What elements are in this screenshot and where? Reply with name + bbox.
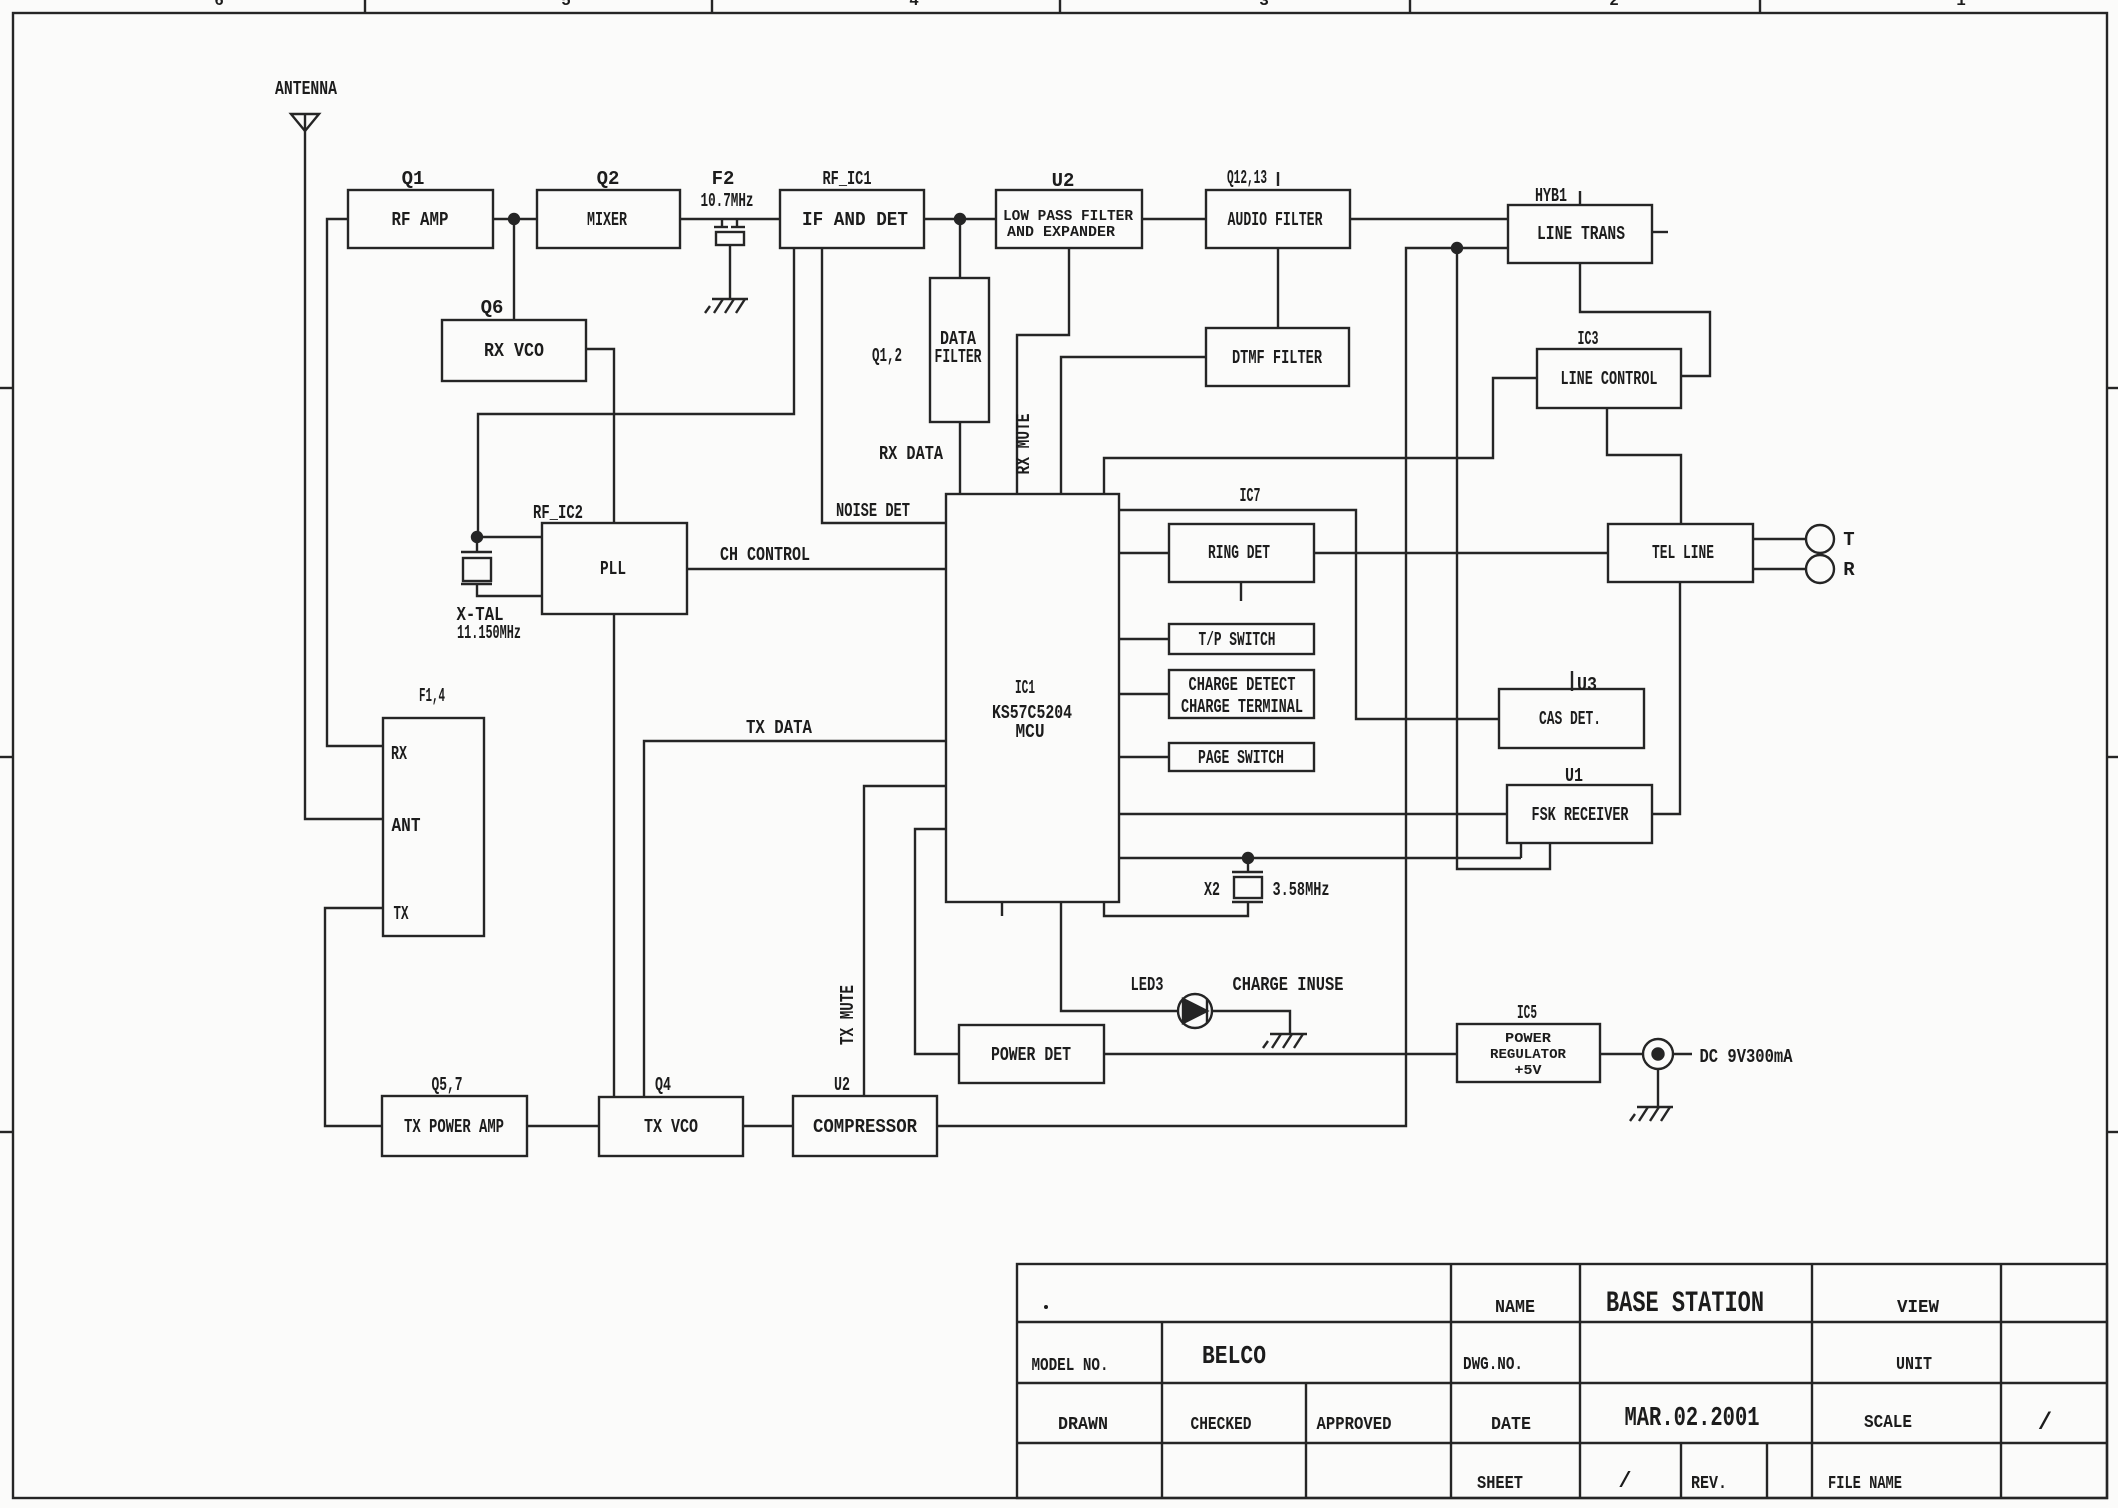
ruler tick 1: [364, 0, 366, 13]
component RING DET IC7: [1169, 524, 1314, 582]
svg-text:DTMF FILTER: DTMF FILTER: [1232, 347, 1322, 369]
svg-text:ANT: ANT: [392, 815, 421, 837]
ruler tick 2: [711, 0, 713, 13]
svg-text:APPROVED: APPROVED: [1317, 1415, 1392, 1435]
svg-text:6: 6: [214, 0, 224, 10]
component CHARGE DETECT / CHARGE TERMINAL: [1169, 670, 1314, 718]
wire LINE CONTROL left to MCU top: [1104, 378, 1537, 494]
svg-text:IF AND DET: IF AND DET: [802, 209, 908, 231]
node junction X2: [1243, 853, 1253, 863]
LED3 diode: [1178, 994, 1212, 1028]
component TX POWER AMP Q5,7: [382, 1096, 527, 1156]
svg-text:RX DATA: RX DATA: [879, 443, 943, 465]
wire DTMF FILTER left to MCU top: [1061, 357, 1206, 494]
wire F1,4 TX port to TX POWER AMP: [325, 908, 383, 1126]
component TEL LINE: [1608, 524, 1753, 582]
svg-text:VIEW: VIEW: [1897, 1298, 1939, 1318]
svg-text:11.150MHz: 11.150MHz: [457, 622, 521, 644]
svg-text:10.7MHz: 10.7MHz: [701, 190, 754, 212]
wire node to DATA FILTER top: [959, 219, 961, 278]
zone tick left C: [0, 1131, 13, 1133]
svg-text:FILE NAME: FILE NAME: [1828, 1474, 1902, 1494]
schematic labels: [275, 78, 1855, 1138]
wire IF AND DET pin to PLL crystal node: [478, 248, 794, 537]
refdes tick U3: [1571, 671, 1573, 691]
svg-text:RING DET: RING DET: [1208, 542, 1270, 564]
component MCU IC1 KS57C5204: [946, 494, 1119, 902]
component RX VCO Q6: [442, 320, 586, 381]
svg-text:Q12,13: Q12,13: [1227, 167, 1267, 189]
svg-text:CHARGE INUSE: CHARGE INUSE: [1233, 974, 1344, 996]
component IF AND DET RF_IC1: [780, 190, 924, 248]
svg-text:FILTER: FILTER: [935, 346, 982, 368]
wire LOW PASS to AUDIO FILTER: [1142, 218, 1206, 220]
svg-text:AND EXPANDER: AND EXPANDER: [1007, 224, 1115, 241]
wire MCU bottom to LED3: [1061, 902, 1178, 1011]
zone tick left A: [0, 387, 13, 389]
component band filter F1,4: [383, 718, 484, 936]
ground for DC jack: [1630, 1107, 1673, 1121]
wire TX POWER AMP to TX VCO: [527, 1125, 599, 1127]
component LOW PASS FILTER AND EXPANDER U2: [996, 190, 1142, 248]
title col checked: [1305, 1383, 1307, 1498]
svg-text:IC5: IC5: [1517, 1002, 1537, 1024]
svg-text:PAGE SWITCH: PAGE SWITCH: [1198, 747, 1284, 769]
component ceramic filter F2: [714, 219, 745, 299]
svg-text:MAR.02.2001: MAR.02.2001: [1625, 1404, 1760, 1434]
svg-text:REGULATOR: REGULATOR: [1490, 1047, 1567, 1063]
DC jack connector: [1643, 1039, 1692, 1069]
svg-text:LINE CONTROL: LINE CONTROL: [1561, 368, 1658, 390]
svg-text:RX VCO: RX VCO: [484, 340, 544, 362]
wire MCU to T/P SWITCH: [1119, 638, 1169, 640]
crystal X-TAL 11.150MHz: [461, 537, 542, 596]
wire MCU to RING DET: [1119, 552, 1169, 554]
title col sheet slash: [1680, 1443, 1682, 1498]
title row line 3: [1017, 1442, 2107, 1444]
svg-text:+5V: +5V: [1515, 1063, 1543, 1079]
title block: [1017, 1264, 2107, 1498]
component PAGE SWITCH: [1169, 743, 1314, 771]
svg-text:REV.: REV.: [1691, 1474, 1727, 1494]
svg-text:CAS DET.: CAS DET.: [1539, 708, 1601, 730]
component LINE TRANS HYB1: [1508, 205, 1652, 263]
svg-text:T: T: [1843, 529, 1854, 551]
wire node down to FSK RECEIVER bottom: [1457, 248, 1550, 869]
svg-text:SHEET: SHEET: [1477, 1474, 1523, 1494]
wire TX VCO to COMPRESSOR: [743, 1125, 793, 1127]
svg-text:IC1: IC1: [1015, 677, 1035, 699]
refdes tick Q12,13: [1277, 172, 1279, 186]
svg-text:BELCO: BELCO: [1202, 1341, 1266, 1371]
component CAS DET. U3: [1499, 689, 1644, 748]
refdes tick HYB1: [1579, 191, 1581, 204]
terminal T: [1806, 525, 1834, 553]
zone tick right B: [2107, 756, 2118, 758]
svg-text:2: 2: [1609, 0, 1619, 10]
wire MIXER to IF AND DET: [680, 218, 780, 220]
svg-text:Q1: Q1: [402, 168, 425, 190]
svg-text:Q2: Q2: [597, 168, 620, 190]
svg-text:COMPRESSOR: COMPRESSOR: [813, 1116, 918, 1138]
svg-text:TX: TX: [394, 903, 409, 925]
svg-text:TX VCO: TX VCO: [644, 1116, 698, 1138]
component FSK RECEIVER U1: [1507, 785, 1652, 843]
component AUDIO FILTER Q12,13: [1206, 190, 1350, 248]
title dot: [1044, 1305, 1048, 1309]
svg-text:RF_IC2: RF_IC2: [533, 502, 583, 524]
title col model: [1161, 1322, 1163, 1498]
svg-text:U2: U2: [1052, 170, 1075, 192]
svg-text:X2: X2: [1204, 879, 1220, 901]
svg-text:4: 4: [909, 0, 919, 10]
svg-text:/: /: [1618, 1469, 1631, 1494]
title col last: [2000, 1264, 2002, 1498]
svg-text:F1,4: F1,4: [419, 685, 445, 707]
wire LED3 to ground: [1212, 1011, 1290, 1033]
wire COMPRESSOR up to LINE TRANS input: [937, 248, 1508, 1126]
svg-text:SCALE: SCALE: [1864, 1413, 1912, 1433]
wire AUDIO FILTER to LINE TRANS: [1350, 218, 1508, 220]
crystal X2 3.58MHz: [1104, 858, 1263, 916]
title col name: [1450, 1264, 1452, 1498]
svg-text:PLL: PLL: [600, 558, 626, 580]
svg-text:DRAWN: DRAWN: [1058, 1415, 1108, 1435]
wire PLL bottom to TX VCO: [613, 614, 615, 1097]
wire TEL LINE to T terminal: [1753, 538, 1806, 540]
svg-text:RX: RX: [391, 743, 407, 765]
svg-text:MIXER: MIXER: [587, 209, 627, 231]
title col rev: [1766, 1443, 1768, 1498]
zone tick right A: [2107, 387, 2118, 389]
wire MCU to CHARGE DETECT: [1119, 693, 1169, 695]
svg-text:POWER: POWER: [1505, 1031, 1552, 1047]
wire LINE CONTROL bottom to TEL LINE top: [1607, 408, 1681, 524]
wire RF AMP to MIXER: [493, 218, 537, 220]
wire MCU to FSK RECEIVER: [1119, 813, 1507, 815]
svg-text:Q6: Q6: [481, 297, 504, 319]
svg-text:/: /: [2038, 1410, 2052, 1437]
antenna symbol: [291, 114, 319, 131]
svg-text:CHARGE TERMINAL: CHARGE TERMINAL: [1181, 696, 1303, 718]
terminal R: [1806, 555, 1834, 583]
wire TX DATA MCU to TX VCO: [644, 741, 946, 1097]
node junction IF/LOW PASS: [955, 214, 965, 224]
component LINE CONTROL IC3: [1537, 349, 1681, 408]
svg-text:RF AMP: RF AMP: [392, 209, 449, 231]
component COMPRESSOR U2: [793, 1096, 937, 1156]
wire AUDIO FILTER bottom to DTMF FILTER: [1277, 248, 1279, 328]
svg-text:IC7: IC7: [1240, 485, 1261, 507]
svg-text:Q1,2: Q1,2: [872, 345, 902, 367]
svg-text:AUDIO FILTER: AUDIO FILTER: [1228, 209, 1323, 231]
svg-text:T/P SWITCH: T/P SWITCH: [1199, 629, 1276, 651]
component DATA FILTER Q1,2: [930, 278, 989, 422]
svg-text:CH CONTROL: CH CONTROL: [720, 544, 810, 566]
wire RING DET to TEL LINE: [1314, 552, 1608, 554]
component T/P SWITCH: [1169, 624, 1314, 654]
svg-text:TX MUTE: TX MUTE: [837, 985, 859, 1045]
svg-text:LED3: LED3: [1131, 974, 1164, 996]
svg-text:U1: U1: [1565, 765, 1583, 787]
wire LINE TRANS bottom to LINE CONTROL: [1580, 263, 1710, 376]
svg-text:MCU: MCU: [1016, 721, 1045, 743]
svg-text:DWG.NO.: DWG.NO.: [1463, 1355, 1523, 1375]
svg-text:LOW PASS FILTER: LOW PASS FILTER: [1003, 208, 1133, 225]
title block outline: [1017, 1264, 2107, 1498]
wire MCU IC7 to CAS DET: [1119, 510, 1499, 719]
node junction RF AMP/MIXER: [509, 214, 519, 224]
component POWER DET: [959, 1025, 1104, 1083]
wire TX MUTE MCU to COMPRESSOR: [864, 786, 946, 1096]
svg-text:CHECKED: CHECKED: [1191, 1415, 1252, 1435]
wire LOW PASS bottom RX MUTE to MCU: [1017, 248, 1069, 494]
svg-text:CHARGE DETECT: CHARGE DETECT: [1189, 674, 1296, 696]
svg-text:1: 1: [1956, 0, 1966, 10]
svg-text:DATE: DATE: [1491, 1415, 1531, 1435]
svg-text:UNIT: UNIT: [1896, 1355, 1932, 1375]
svg-text:MODEL NO.: MODEL NO.: [1032, 1356, 1109, 1376]
wire DATA FILTER bottom RX DATA to MCU top: [959, 422, 961, 494]
ground for LED3 wire: [1263, 1034, 1307, 1048]
svg-text:TX DATA: TX DATA: [746, 717, 812, 739]
svg-text:Q5,7: Q5,7: [432, 1074, 463, 1096]
wire MCU X2 oscillator: [1119, 857, 1521, 859]
ground for F2: [705, 299, 748, 313]
svg-text:F2: F2: [712, 168, 735, 190]
svg-text:FSK RECEIVER: FSK RECEIVER: [1532, 804, 1629, 826]
svg-text:POWER DET: POWER DET: [991, 1044, 1071, 1066]
ruler zone numbers: [214, 0, 1966, 10]
ruler tick 4: [1409, 0, 1411, 13]
wire MCU to PAGE SWITCH: [1119, 756, 1169, 758]
wire PLL CH CONTROL to MCU: [687, 568, 946, 570]
svg-text:DC 9V300mA: DC 9V300mA: [1700, 1046, 1793, 1068]
title col value: [1579, 1264, 1581, 1498]
wire FSK RECEIVER to TEL LINE bottom: [1652, 582, 1680, 814]
ruler tick 5: [1759, 0, 1761, 13]
wire POWER DET to POWER REGULATOR: [1104, 1053, 1457, 1055]
svg-text:Q4: Q4: [655, 1074, 671, 1096]
zone tick right C: [2107, 1131, 2118, 1133]
zone tick left B: [0, 756, 13, 758]
component POWER REGULATOR +5V IC5: [1457, 1024, 1600, 1082]
svg-text:U3: U3: [1577, 674, 1597, 696]
wire RX VCO to PLL top: [586, 349, 614, 523]
wire MCU to POWER DET: [915, 829, 959, 1054]
svg-text:BASE STATION: BASE STATION: [1606, 1287, 1764, 1321]
svg-text:IC3: IC3: [1578, 328, 1599, 350]
wire IF AND DET to LOW PASS FILTER: [924, 218, 996, 220]
title row line 2: [1017, 1382, 2107, 1384]
svg-text:TEL LINE: TEL LINE: [1652, 542, 1714, 564]
wire RF AMP input from filter RX port: [327, 219, 383, 746]
svg-text:3: 3: [1259, 0, 1269, 10]
svg-text:HYB1: HYB1: [1535, 185, 1567, 207]
svg-text:NOISE DET: NOISE DET: [836, 500, 910, 522]
stub RING DET bottom: [1240, 582, 1242, 601]
wire LINE TRANS right stub: [1652, 231, 1668, 233]
wire node to PLL left: [477, 536, 542, 538]
svg-text:ANTENNA: ANTENNA: [275, 78, 337, 100]
wire DC jack to ground: [1657, 1069, 1659, 1106]
svg-text:U2: U2: [834, 1074, 850, 1096]
svg-text:RX MUTE: RX MUTE: [1013, 414, 1035, 475]
ruler tick 3: [1059, 0, 1061, 13]
svg-text:R: R: [1843, 559, 1855, 581]
stub MCU bottom: [1001, 902, 1003, 916]
svg-text:5: 5: [561, 0, 571, 10]
wire node to RX VCO top: [513, 219, 515, 320]
svg-text:3.58MHz: 3.58MHz: [1273, 879, 1330, 901]
component RF AMP Q1: [348, 190, 493, 248]
svg-text:RF_IC1: RF_IC1: [823, 168, 872, 190]
wire POWER REGULATOR to DC jack: [1600, 1053, 1643, 1055]
component TX VCO Q4: [599, 1097, 743, 1156]
svg-text:LINE TRANS: LINE TRANS: [1537, 223, 1625, 245]
node junction X-TAL: [472, 532, 482, 542]
svg-text:NAME: NAME: [1495, 1298, 1535, 1318]
svg-text:TX POWER AMP: TX POWER AMP: [404, 1116, 504, 1138]
component PLL RF_IC2: [542, 523, 687, 614]
component DTMF FILTER: [1206, 328, 1349, 386]
component MIXER Q2: [537, 190, 680, 248]
node junction LINE TRANS input: [1452, 243, 1462, 253]
wire antenna vertical to ANT port: [305, 115, 383, 819]
wire TEL LINE to R terminal: [1753, 568, 1806, 570]
title col view: [1811, 1264, 1813, 1498]
title row line 1: [1017, 1321, 2107, 1323]
wire IF AND DET pin NOISE DET to MCU: [822, 248, 946, 523]
stub FSK bottom pin: [1520, 843, 1522, 858]
